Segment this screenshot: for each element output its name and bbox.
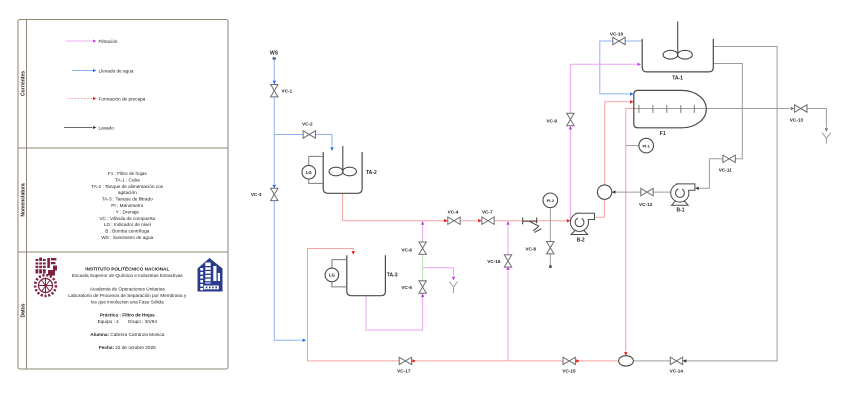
valve VC-3 <box>271 188 278 200</box>
svg-text:PI : Manómetro: PI : Manómetro <box>111 203 143 208</box>
svg-text:VC : Válvula de compuerta: VC : Válvula de compuerta <box>99 216 155 221</box>
svg-text:VC-15: VC-15 <box>562 368 576 373</box>
svg-text:VC-13: VC-13 <box>790 118 804 123</box>
arrow black left into VC-14 <box>683 359 687 362</box>
arrow magenta up into red main at VC-6 branch <box>421 221 424 225</box>
arrow red right after VC-15 <box>576 359 580 362</box>
arrow magenta up into VC-9 <box>569 126 572 130</box>
svg-text:F1: F1 <box>660 131 666 137</box>
svg-text:Academia de Operaciones Unitar: Academia de Operaciones Unitarias <box>90 287 166 292</box>
svg-text:LG : Indicador de nivel: LG : Indicador de nivel <box>104 222 151 227</box>
valve VC-17 <box>399 357 411 364</box>
tank TA-3 <box>347 255 386 295</box>
svg-text:Datos: Datos <box>20 303 26 317</box>
arrow blue down into VC-1 <box>273 81 276 85</box>
svg-text:Laboratorio de Procesos de Sep: Laboratorio de Procesos de Separación po… <box>68 293 187 298</box>
wire green segment VC-6 to VC-5 <box>422 254 424 281</box>
svg-text:B-1: B-1 <box>676 208 684 214</box>
wire gray F1 outlet to VC-13 <box>634 109 827 128</box>
arrow magenta up into red main at VC-16 branch <box>506 221 509 225</box>
arrow red right into VC-7 <box>478 219 482 222</box>
svg-text:B : Bomba centrífuga: B : Bomba centrífuga <box>105 229 149 234</box>
svg-text:VC-10: VC-10 <box>610 32 624 37</box>
arrow gray right into VC-13 <box>791 107 795 110</box>
wire red junction to F1 <box>605 102 629 185</box>
arrow magenta up into VC-16 <box>506 266 509 270</box>
arrow black left into B-1 volute <box>695 187 699 190</box>
svg-text:PI-1: PI-1 <box>643 143 651 148</box>
svg-text:Filtración: Filtración <box>99 39 118 44</box>
valve VC-8 <box>547 242 554 254</box>
valve VC-9 <box>567 113 574 125</box>
svg-text:VC-9: VC-9 <box>546 119 557 124</box>
svg-text:los que involucran una Fase Só: los que involucran una Fase Sólida <box>91 299 164 304</box>
filter F1 leaf ticks <box>639 105 694 113</box>
arrow black left into junction circle <box>612 190 616 193</box>
wire gray PI-2 stem <box>549 208 551 266</box>
nomenclatura text <box>91 171 163 240</box>
arrow blue right into red loop <box>303 339 307 342</box>
wire gray TA-1 outlet 2 to VC-11 to B-1 <box>699 64 742 189</box>
wire magenta TA-1 feed <box>570 64 636 220</box>
pump B-2 <box>570 213 594 234</box>
arrow red right into F1 <box>630 100 634 103</box>
arrow red right after VC-17 <box>412 359 416 362</box>
svg-text:TA-2: TA-2 <box>366 170 377 176</box>
agitator TA-2 <box>329 146 356 176</box>
wire red B-2 outlet to junction <box>595 199 605 217</box>
wire red TA-3 feed loop <box>308 249 400 361</box>
valve VC-7 <box>482 217 494 224</box>
arrow blue down into VC-3 <box>273 185 276 189</box>
wire red F1 filtrate drop <box>626 109 634 352</box>
ESIQIE logo <box>198 258 223 292</box>
drain Y below VC-5 branch <box>449 282 458 294</box>
svg-text:VC-4: VC-4 <box>448 210 459 215</box>
svg-text:agitación: agitación <box>118 190 137 195</box>
pressure gauge PI-2 <box>543 193 558 208</box>
svg-text:VC-14: VC-14 <box>670 368 684 373</box>
junction node oval bottom <box>619 356 634 366</box>
valve VC-15 <box>563 357 575 364</box>
valve VC-4 <box>448 217 460 224</box>
datos text <box>68 265 187 350</box>
pressure gauge PI-1 <box>639 138 654 153</box>
wire blue WS main vertical <box>274 60 332 340</box>
arrow magenta down into Y drain <box>452 277 455 281</box>
svg-text:VC-5: VC-5 <box>401 285 412 290</box>
svg-text:VC-3: VC-3 <box>251 192 262 197</box>
arrow magenta right into TA-1 <box>637 63 641 66</box>
valve VC-5 <box>419 281 426 293</box>
svg-text:F1 : Filtro de hojas: F1 : Filtro de hojas <box>108 171 147 176</box>
PI-2 stub square <box>549 265 552 268</box>
junction node circle <box>597 185 611 199</box>
svg-text:INSTITUTO POLITÉCNICO NACIONAL: INSTITUTO POLITÉCNICO NACIONAL <box>85 265 169 272</box>
titleblock outer frame <box>18 20 228 370</box>
agitator TA-1 <box>663 22 692 60</box>
svg-text:Lavado: Lavado <box>99 125 115 130</box>
valve VC-10 <box>613 37 625 44</box>
arrow blue down into TA-2 <box>330 147 333 151</box>
tank TA-1 <box>642 39 713 72</box>
arrow red down into oval <box>624 352 627 356</box>
svg-text:TA-1: TA-1 <box>672 75 683 81</box>
level gauge LG TA-3 <box>325 260 347 287</box>
arrow red down into TA-3 <box>352 251 355 255</box>
svg-text:Formación de precapa: Formación de precapa <box>99 96 146 101</box>
valve VC-16 <box>504 255 511 267</box>
svg-text:Alumna: Cabrera Carranza Monic: Alumna: Cabrera Carranza Monica <box>90 332 164 337</box>
valve VC-6 <box>419 242 426 254</box>
svg-text:Equipo : 4 Grupo : 3IV94: Equipo : 4 Grupo : 3IV94 <box>98 319 158 324</box>
svg-text:Y : Drenaje: Y : Drenaje <box>116 209 140 214</box>
svg-text:TA-1 : Cuba: TA-1 : Cuba <box>115 177 140 182</box>
svg-text:VC-12: VC-12 <box>639 202 653 207</box>
svg-text:WS : Suministro de agua: WS : Suministro de agua <box>101 235 153 240</box>
wire magenta VC-6 branch <box>366 225 454 330</box>
wire gray junction to VC-12 to B-1 <box>616 191 671 193</box>
svg-text:TA-3 : Tanque de filtrado: TA-3 : Tanque de filtrado <box>102 197 153 202</box>
valve VC-2 <box>303 131 315 138</box>
drain Y at VC-13 outlet <box>822 133 831 144</box>
arrow red right into B-2 <box>567 219 571 222</box>
pump B-1 <box>671 184 695 205</box>
svg-text:B-2: B-2 <box>577 238 585 244</box>
svg-text:VC-2: VC-2 <box>302 121 313 126</box>
svg-text:Corrientes: Corrientes <box>20 71 26 96</box>
arrow blue right into F1 <box>630 92 634 95</box>
arrow gray down into Y drain right <box>825 128 828 132</box>
wire gray PI-1 stem <box>626 145 639 147</box>
valve VC-12 <box>641 188 653 195</box>
wire gray bottom VC-14 to oval <box>634 360 671 362</box>
arrow magenta up into VC-5 <box>421 293 424 297</box>
titleblock label column divider <box>26 20 28 370</box>
svg-text:WS: WS <box>270 51 279 57</box>
valve VC-13 <box>795 105 807 112</box>
svg-text:Práctica : Filtro de Hojas: Práctica : Filtro de Hojas <box>100 313 155 318</box>
valve VC-1 <box>271 85 278 97</box>
legend formación de precapa <box>68 96 146 101</box>
svg-text:TA-2 : Tanque de alimentación: TA-2 : Tanque de alimentación con <box>91 184 163 189</box>
svg-text:Fecha: 22 de octubre 2025: Fecha: 22 de octubre 2025 <box>99 345 156 350</box>
svg-text:LG: LG <box>329 273 336 278</box>
svg-text:VC-8: VC-8 <box>525 246 536 251</box>
wire red main TA-2 to B-2 <box>343 193 566 220</box>
legend filtración <box>66 39 118 44</box>
svg-text:TA-3: TA-3 <box>387 272 398 278</box>
titleblock divider corrientes/nomenclatura <box>18 147 228 149</box>
svg-text:VC-17: VC-17 <box>397 368 411 373</box>
arrow red right into VC-4 <box>444 219 448 222</box>
wire gray TA-1 outlet top <box>683 47 777 361</box>
svg-text:Llenado de agua: Llenado de agua <box>99 68 134 73</box>
filter F1 vessel <box>634 90 707 127</box>
tank TA-2 <box>323 152 362 193</box>
WS stub square <box>273 57 276 59</box>
valve VC-11 <box>723 155 735 162</box>
valve VC-14 <box>670 357 682 364</box>
IPN logo <box>35 258 57 296</box>
titleblock divider nomenclatura/datos <box>18 251 228 253</box>
legend lavado <box>64 125 114 130</box>
svg-text:VC-6: VC-6 <box>401 248 412 253</box>
wire blue F1/TA-1 subloop <box>600 41 642 94</box>
svg-text:Escuela Superior de Química e: Escuela Superior de Química e Industrias… <box>72 273 183 278</box>
svg-text:VC-16: VC-16 <box>487 259 501 264</box>
svg-text:VC-1: VC-1 <box>282 89 293 94</box>
legend llenado de agua <box>72 68 134 73</box>
svg-text:VC-7: VC-7 <box>482 210 493 215</box>
svg-text:VC-11: VC-11 <box>719 167 732 172</box>
wire magenta VC-16 branch <box>507 225 509 361</box>
svg-text:LG: LG <box>306 170 313 175</box>
level gauge LG TA-2 <box>302 156 323 183</box>
drain fitting on red main <box>523 217 542 232</box>
svg-text:PI-2: PI-2 <box>547 198 555 203</box>
wire red bottom segments <box>416 360 618 362</box>
svg-text:Nomenclatura: Nomenclatura <box>20 183 26 217</box>
